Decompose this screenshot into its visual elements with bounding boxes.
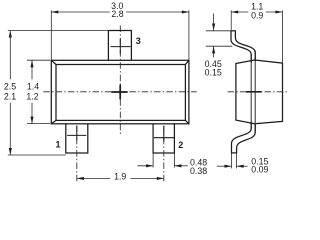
- svg-text:2.1: 2.1: [4, 91, 16, 101]
- dimension 1.1/0.9 extension lines: [231, 10, 282, 63]
- svg-text:1: 1: [55, 140, 60, 150]
- dimension text 0.9: [251, 11, 263, 21]
- dimension 1.4/1.2 line and arrows: [30, 60, 33, 123]
- dimension text 1.9: [114, 172, 126, 182]
- pin 2 cross: [154, 126, 174, 142]
- dimension text 0.45: [205, 59, 222, 69]
- svg-text:0.38: 0.38: [190, 166, 207, 176]
- dimension 2.5/2.1 extension lines: [8, 31, 109, 156]
- body corner chamfer top-left: [51, 60, 56, 64]
- pin label 1: [55, 140, 60, 150]
- dimension text 1.2: [26, 91, 38, 101]
- dimension text 2.1: [4, 91, 16, 101]
- svg-text:2: 2: [178, 140, 183, 150]
- svg-text:0.15: 0.15: [205, 67, 222, 77]
- svg-text:1.2: 1.2: [26, 91, 38, 101]
- pin label 3: [136, 36, 141, 46]
- dimension text 0.15 tip: [251, 156, 268, 166]
- dimension text 1.4: [27, 81, 39, 91]
- dimension 3.0/2.8 line and arrows: [51, 10, 189, 13]
- pin 1: [66, 124, 88, 153]
- dimension 0.45/0.15 arrows: [212, 14, 215, 58]
- dimension 1.1/0.9 line and arrows: [231, 10, 282, 13]
- dimension 0.48/0.38 line and arrows: [137, 164, 188, 167]
- body outline inner (top view): [56, 65, 185, 121]
- dimension text 2.5: [4, 81, 16, 91]
- dimension text 3.0: [111, 1, 123, 11]
- pin 2 centerline: [163, 126, 165, 182]
- dimension 1.9 line and arrows: [77, 177, 164, 180]
- svg-text:3: 3: [136, 36, 141, 46]
- svg-text:2.5: 2.5: [4, 81, 16, 91]
- dimension 1.4/1.2 extension lines: [27, 60, 50, 123]
- side view horizontal centerline: [228, 91, 288, 93]
- dimension 0.48/0.38 extension lines: [153, 153, 174, 167]
- vertical centerline through pin 3: [119, 26, 121, 137]
- side view body: [236, 60, 283, 124]
- pin 1 cross: [67, 126, 86, 141]
- side view lead frame through body: [251, 51, 255, 133]
- side view center cross: [246, 91, 262, 93]
- dimension text 0.09: [251, 165, 268, 175]
- dimension 0.15/0.09 line and arrows: [217, 165, 248, 168]
- body outline outer (top view): [51, 60, 189, 124]
- dimension text 2.8: [111, 9, 123, 19]
- svg-text:0.09: 0.09: [251, 165, 268, 175]
- svg-text:0.9: 0.9: [251, 11, 263, 21]
- dimension 2.5/2.1 line and arrows: [9, 31, 12, 156]
- svg-text:2.8: 2.8: [111, 9, 123, 19]
- svg-text:1.9: 1.9: [114, 172, 126, 182]
- pin 3 cross: [111, 39, 131, 54]
- dimension text 0.38: [190, 166, 207, 176]
- pin 1 centerline: [76, 126, 78, 182]
- dimension 0.45/0.15 extension lines: [206, 31, 233, 46]
- body corner chamfer bottom-right: [185, 120, 189, 123]
- side view top lead: [231, 31, 256, 63]
- horizontal centerline (top view): [43, 91, 196, 93]
- dimension text 0.48: [190, 158, 207, 168]
- dimension 0.15/0.09 extension lines: [232, 153, 237, 168]
- body center cross: [111, 85, 127, 100]
- body corner chamfer top-right: [185, 60, 189, 64]
- svg-text:1.4: 1.4: [27, 81, 39, 91]
- pin label 2: [178, 140, 183, 150]
- side view bottom lead: [231, 122, 255, 153]
- pin 2: [153, 124, 174, 153]
- body corner chamfer bottom-left: [51, 120, 56, 123]
- dimension text 0.15: [205, 67, 222, 77]
- dimension 3.0/2.8 extension lines: [51, 10, 189, 60]
- dimension text 1.1: [251, 1, 263, 11]
- pin 3 tab: [108, 31, 131, 61]
